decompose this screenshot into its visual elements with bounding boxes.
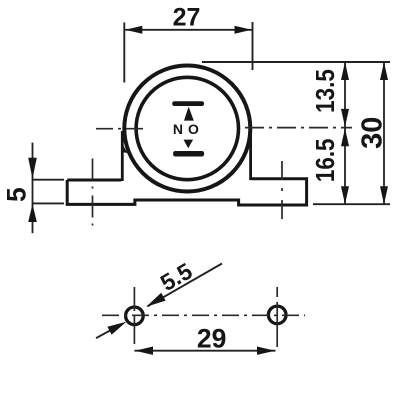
horizontal centerline of body, left segment bbox=[96, 128, 144, 130]
dimension 5: dimension line bbox=[32, 143, 34, 234]
dimension 5: top extension line bbox=[33, 179, 64, 181]
vertical centerline left mounting position (front view) bbox=[92, 159, 94, 229]
bottom view: left mounting hole bbox=[126, 307, 144, 325]
bottom view: right mounting hole bbox=[268, 306, 286, 324]
right cradle wall bbox=[249, 129, 252, 180]
dimension 5: upper arrowhead pointing down bbox=[28, 158, 37, 179]
30 top arrowhead bbox=[380, 62, 388, 80]
bottom view: vertical centerline through right hole bbox=[276, 287, 278, 348]
13.5 top arrowhead bbox=[341, 62, 349, 80]
bottom extension line (bottom of flange) bbox=[313, 203, 390, 205]
16.5 bottom arrowhead bbox=[341, 186, 349, 204]
down arrow to bottom terminal bbox=[184, 140, 194, 149]
bottom view: vertical centerline through left hole bbox=[133, 287, 135, 348]
16.5 top arrowhead bbox=[341, 128, 349, 146]
dimension 5: lower arrowhead pointing up bbox=[28, 204, 37, 222]
svg-text:27: 27 bbox=[173, 4, 201, 32]
top terminal bar bbox=[172, 101, 204, 106]
dimension 29: right arrowhead bbox=[257, 347, 275, 355]
top extension line (top of body) bbox=[202, 61, 390, 63]
outer circle of round body bbox=[124, 66, 250, 192]
dimension 27: left extension line bbox=[123, 23, 125, 83]
leader arrowhead at hole upper right bbox=[146, 293, 165, 307]
wall-circle junction wedge bbox=[121, 142, 127, 153]
horizontal centerline of body, right segment bbox=[245, 127, 352, 129]
dimension line 13.5/16.5 bbox=[344, 62, 346, 204]
dimension 27: left arrowhead bbox=[125, 26, 142, 34]
svg-text:5.5: 5.5 bbox=[156, 258, 197, 297]
dimension 27: right extension line bbox=[252, 22, 254, 70]
part body outline (flange with end feet) bbox=[67, 179, 306, 205]
dimension 5: bottom extension line bbox=[33, 202, 64, 204]
13.5 bottom arrowhead bbox=[341, 109, 349, 127]
dimension 29: left arrowhead bbox=[135, 347, 153, 355]
dimension 27: right arrowhead bbox=[235, 26, 252, 34]
svg-text:30: 30 bbox=[357, 117, 389, 149]
bottom view: horizontal centerline bbox=[102, 314, 305, 316]
vertical centerline right mounting position (front view) bbox=[281, 161, 283, 222]
up arrow to top terminal bbox=[184, 107, 194, 121]
svg-text:13.5: 13.5 bbox=[312, 69, 341, 113]
leader arrowhead at hole lower left pointing up-right bbox=[107, 322, 126, 335]
left cradle wall bbox=[121, 131, 124, 181]
30 bottom arrowhead bbox=[380, 186, 388, 204]
svg-text:29: 29 bbox=[197, 324, 226, 354]
svg-text:O: O bbox=[188, 121, 199, 137]
dimension 29: dimension line bbox=[134, 350, 275, 352]
inner circle of round body bbox=[136, 77, 238, 179]
svg-text:N: N bbox=[173, 121, 183, 137]
leader line for 5.5 bbox=[148, 264, 223, 307]
bottom terminal bar bbox=[173, 151, 204, 157]
leader tail lower-left of hole bbox=[96, 331, 110, 339]
svg-text:5: 5 bbox=[2, 187, 32, 202]
svg-text:16.5: 16.5 bbox=[312, 138, 341, 182]
dimension 27: dimension line bbox=[125, 29, 251, 31]
dimension line 30 bbox=[383, 62, 385, 204]
